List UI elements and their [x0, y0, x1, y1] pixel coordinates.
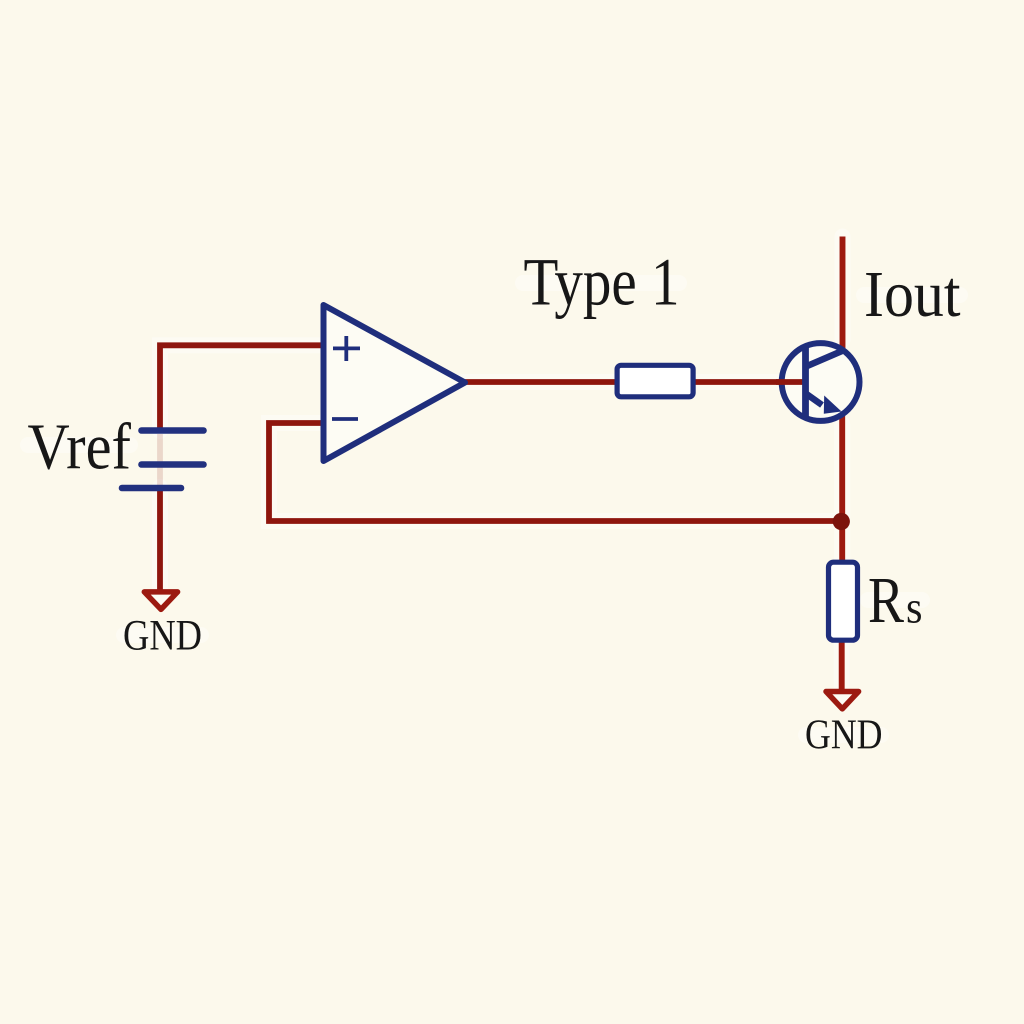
svg-text:Iout: Iout: [864, 258, 961, 331]
svg-text:Type 1: Type 1: [524, 245, 680, 320]
svg-text:GND: GND: [805, 712, 883, 759]
svg-text:s: s: [906, 582, 923, 633]
svg-text:GND: GND: [123, 612, 202, 660]
svg-text:R: R: [868, 564, 904, 637]
svg-text:Vref: Vref: [28, 411, 132, 484]
